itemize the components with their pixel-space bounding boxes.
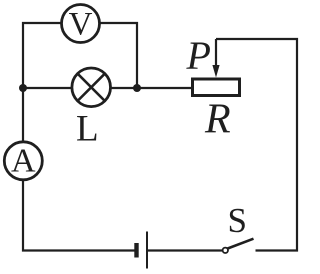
wire: node B to rheostat xyxy=(137,87,191,89)
wiper arrow P xyxy=(212,39,219,78)
switch S xyxy=(223,239,254,253)
wire: battery to switch xyxy=(148,249,222,251)
svg-text:A: A xyxy=(11,143,36,180)
wire: voltmeter to node B xyxy=(100,23,138,88)
node B junction dot xyxy=(133,84,141,92)
wire: wiper across top and down right side xyxy=(216,39,297,251)
voltmeter V xyxy=(62,5,100,43)
lamp L xyxy=(72,68,111,107)
svg-text:L: L xyxy=(76,109,99,150)
wire: bottom-left from battery to ammeter xyxy=(23,181,135,251)
battery xyxy=(137,232,148,269)
svg-text:S: S xyxy=(228,201,247,240)
wire: node A to lamp xyxy=(23,87,72,89)
svg-text:R: R xyxy=(204,96,231,142)
ammeter A xyxy=(4,142,42,180)
svg-text:V: V xyxy=(69,7,93,43)
wire: ammeter to node A xyxy=(22,88,24,142)
rheostat R body xyxy=(193,79,240,96)
svg-text:P: P xyxy=(186,33,211,78)
wire: lamp to node B xyxy=(110,87,137,89)
wire: node A up left side and across to voltmeter xyxy=(23,23,62,88)
node A junction dot xyxy=(19,84,27,92)
